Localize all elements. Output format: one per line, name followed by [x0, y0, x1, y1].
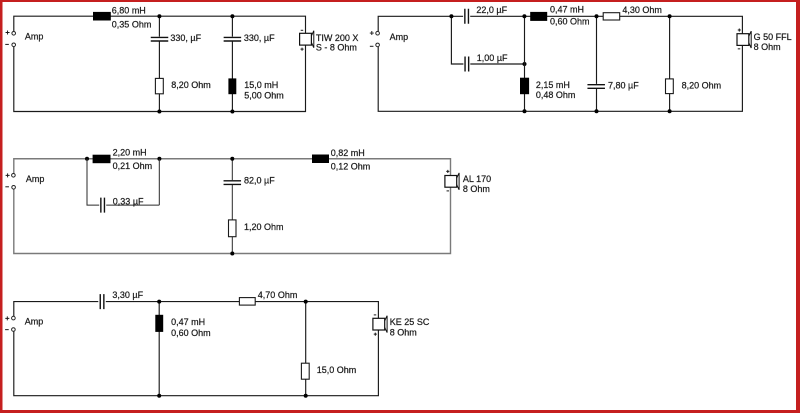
svg-text:6,80 mH: 6,80 mH	[112, 5, 146, 15]
svg-text:15,0 mH: 15,0 mH	[244, 80, 278, 90]
svg-text:7,80 µF: 7,80 µF	[608, 81, 639, 91]
svg-text:0,33 µF: 0,33 µF	[113, 196, 144, 206]
svg-text:15,0 Ohm: 15,0 Ohm	[317, 365, 357, 375]
svg-text:0,82 mH: 0,82 mH	[331, 148, 365, 158]
svg-text:2,20 mH: 2,20 mH	[113, 148, 147, 158]
svg-text:Amp: Amp	[25, 317, 44, 327]
svg-text:3,30 µF: 3,30 µF	[112, 290, 143, 300]
svg-text:4,70 Ohm: 4,70 Ohm	[258, 290, 298, 300]
svg-text:TIW 200 X: TIW 200 X	[316, 33, 359, 43]
svg-text:8,20 Ohm: 8,20 Ohm	[682, 81, 722, 91]
svg-text:1,00 µF: 1,00 µF	[477, 53, 508, 63]
svg-text:330, µF: 330, µF	[244, 33, 275, 43]
svg-text:0,48 Ohm: 0,48 Ohm	[536, 90, 576, 100]
svg-text:AL 170: AL 170	[463, 174, 491, 184]
svg-text:0,60 Ohm: 0,60 Ohm	[550, 17, 590, 27]
svg-text:Amp: Amp	[390, 32, 409, 42]
svg-text:0,47 mH: 0,47 mH	[171, 317, 205, 327]
svg-text:22,0 µF: 22,0 µF	[476, 5, 507, 15]
svg-text:8 Ohm: 8 Ohm	[390, 327, 417, 337]
svg-text:Amp: Amp	[25, 31, 44, 41]
svg-text:2,15 mH: 2,15 mH	[536, 80, 570, 90]
svg-text:KE 25 SC: KE 25 SC	[390, 317, 430, 327]
svg-text:330, µF: 330, µF	[170, 33, 201, 43]
svg-text:0,12 Ohm: 0,12 Ohm	[331, 161, 371, 171]
svg-text:4,30 Ohm: 4,30 Ohm	[622, 5, 662, 15]
svg-text:Amp: Amp	[26, 174, 45, 184]
svg-text:8 Ohm: 8 Ohm	[754, 42, 781, 52]
svg-text:8 Ohm: 8 Ohm	[463, 184, 490, 194]
svg-text:G 50 FFL: G 50 FFL	[754, 32, 792, 42]
svg-text:S - 8 Ohm: S - 8 Ohm	[316, 43, 357, 53]
svg-text:0,60 Ohm: 0,60 Ohm	[171, 328, 211, 338]
svg-text:82,0 µF: 82,0 µF	[244, 175, 275, 185]
svg-text:0,47 mH: 0,47 mH	[550, 5, 584, 15]
svg-text:1,20 Ohm: 1,20 Ohm	[244, 222, 284, 232]
svg-text:0,21 Ohm: 0,21 Ohm	[113, 161, 153, 171]
svg-text:8,20 Ohm: 8,20 Ohm	[171, 80, 211, 90]
svg-text:5,00 Ohm: 5,00 Ohm	[244, 91, 284, 101]
svg-text:0,35 Ohm: 0,35 Ohm	[112, 19, 152, 29]
